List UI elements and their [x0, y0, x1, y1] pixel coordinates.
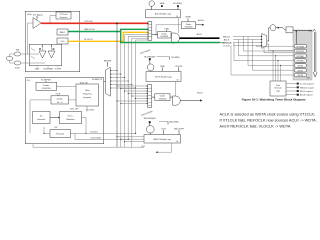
register WDTTMSEL — [294, 44, 306, 48]
wire ACLK request — [286, 94, 313, 97]
svg-text:MCLK request: MCLK request — [300, 90, 313, 93]
svg-text:Frequency: Frequency — [83, 93, 92, 96]
wire integrator to DCO — [86, 106, 88, 112]
wire SELREF inputs — [110, 70, 136, 89]
svg-text:And if REFOCLK fails, VLOCLK -: And if REFOCLK fails, VLOCLK -> WDTA — [220, 125, 291, 129]
svg-text:MCLKREQ: MCLKREQ — [171, 57, 180, 59]
wire drops to pulse generator — [272, 50, 281, 81]
svg-text:UCS: UCS — [27, 14, 32, 16]
box ACLK Enable Logic — [146, 10, 181, 18]
wire XT1 input riser — [27, 23, 29, 54]
mux SELA — [147, 22, 151, 41]
wire WDT mux output — [267, 28, 270, 41]
svg-text:MCLK Enable Logic: MCLK Enable Logic — [155, 76, 172, 78]
label SELREF — [104, 60, 112, 66]
svg-text:REFO: REFO — [60, 32, 66, 34]
wire SELM inputs — [116, 85, 147, 104]
box FLL (bottom-left) — [25, 78, 104, 144]
svg-text:SELA: SELA — [160, 2, 165, 5]
box SMCLK Enable Logic — [144, 135, 181, 143]
gate ACLK enable AND — [171, 33, 180, 43]
wire DCOCLK — [71, 131, 137, 134]
mux SELM — [148, 85, 152, 108]
op-amp XT1 oscillator buffer — [33, 15, 43, 29]
wire DCO output drop — [82, 118, 87, 134]
wire mesh rail to register taps — [231, 36, 294, 75]
svg-text:ACLKREQ: ACLKREQ — [173, 2, 182, 5]
wire ACLK (bold black) — [180, 33, 220, 39]
box Divider N+1 — [51, 96, 69, 104]
wire amp input — [28, 22, 34, 24]
svg-text:XT1 Fault: XT1 Fault — [60, 13, 68, 16]
box Pulse Generator — [270, 81, 286, 96]
wire ACLK rail green (REFOCLK sourced) — [121, 29, 221, 42]
svg-text:CB: CB — [177, 79, 179, 81]
svg-text:XT1OFF: XT1OFF — [55, 69, 61, 71]
gate MCLK enable AND — [170, 96, 180, 105]
label MCLKREQ — [157, 57, 181, 60]
wire DC gen to DCO — [50, 117, 60, 119]
svg-text:DCO, MOD: DCO, MOD — [86, 109, 95, 111]
wire MCLK enable drop — [175, 81, 177, 96]
svg-text:VLO: VLO — [60, 41, 64, 43]
box MCLK Enable Logic — [146, 72, 181, 82]
svg-text:DCOCLKDIV: DCOCLKDIV — [91, 138, 102, 140]
box WDT_A register block (gray) — [293, 30, 312, 80]
wire SELA output — [152, 34, 158, 36]
label DIVPA — [185, 16, 191, 22]
wire SMCLK request — [286, 86, 315, 89]
wire ACLK enable drop — [178, 18, 180, 33]
svg-text:REFOCLK: REFOCLK — [221, 42, 232, 44]
wire DIVPA riser — [155, 25, 181, 35]
wire vertical bus bundle — [117, 23, 136, 147]
svg-text:Prescaler: Prescaler — [56, 132, 64, 135]
svg-text:FLLN: FLLN — [56, 94, 61, 96]
wire VLOCLK (yellow) — [68, 32, 148, 41]
label CPUOFF — [175, 66, 183, 71]
svg-text:WDTSSEL0: WDTSSEL0 — [297, 61, 305, 63]
svg-text:Pulse: Pulse — [276, 85, 280, 87]
wire SELM output — [152, 96, 155, 98]
wire fault-detect tap — [49, 16, 56, 24]
bus MDB — [309, 29, 317, 77]
svg-text:WDTIS1: WDTIS1 — [298, 70, 304, 72]
box DCO + Modulator — [60, 112, 82, 124]
box Divider DIVPA — [181, 22, 195, 29]
wire ACLK/n output — [196, 19, 205, 26]
box WDT clock input cell — [286, 27, 293, 33]
svg-text:ACLK: ACLK — [197, 33, 203, 36]
svg-text:Generator: Generator — [274, 87, 282, 90]
svg-text:SMCLK: SMCLK — [223, 36, 231, 38]
svg-text:SMCLKREQEN: SMCLKREQEN — [144, 118, 157, 120]
wire N divider links — [30, 100, 76, 133]
register WDTCNTCL — [294, 49, 306, 53]
box 10-bit Frequency Integrator — [76, 84, 99, 106]
wire DCOCLKDIV — [75, 133, 129, 140]
svg-text:Figure 16-1. Watchdog Timer Bl: Figure 16-1. Watchdog Timer Block Diagra… — [242, 98, 306, 102]
svg-text:MCLKREQEN: MCLKREQEN — [144, 56, 155, 58]
label ACLKREQ — [173, 2, 182, 10]
svg-text:VLOCLK: VLOCLK — [84, 39, 93, 41]
svg-text:WDTIS0: WDTIS0 — [298, 75, 304, 77]
wire FLL bottom feedback — [33, 144, 144, 147]
svg-text:Divider: Divider — [162, 32, 168, 35]
wire XIN/XOUT into box — [25, 53, 29, 55]
register WDTSSEL0 — [294, 59, 306, 63]
svg-text:ACLK/n: ACLK/n — [198, 19, 204, 22]
svg-text:ACLK: ACLK — [224, 38, 230, 41]
svg-text:10-bit: 10-bit — [85, 89, 90, 92]
svg-text:ACLK Enable Logic: ACLK Enable Logic — [155, 13, 171, 16]
mux SELREF — [106, 67, 111, 96]
svg-text:WDTTMSEL: WDTTMSEL — [296, 46, 304, 48]
svg-text:MCLK: MCLK — [197, 92, 203, 94]
register WDTIS2 — [294, 64, 306, 68]
svg-text:Divider: Divider — [186, 23, 192, 26]
label DIVS — [161, 128, 166, 134]
label SMCLKREQEN — [144, 118, 157, 125]
svg-text:XOUT: XOUT — [15, 68, 21, 70]
svg-text:WDTCNTCL: WDTCNTCL — [296, 51, 304, 53]
box XT1 oscillator inner circuit — [29, 44, 62, 66]
svg-text:Divider: Divider — [57, 97, 63, 100]
svg-text:XT1 Bypass: XT1 Bypass — [33, 15, 43, 17]
label SELA — [160, 2, 165, 7]
wire MCLK output arrow — [180, 92, 203, 101]
label DIVA — [165, 28, 170, 32]
svg-text:SMCLK request: SMCLK request — [300, 86, 315, 89]
wire SMCLK inputs — [116, 136, 144, 142]
svg-text:Detection: Detection — [60, 16, 68, 19]
svg-text:If XT1CLK fails, REFOCLK now s: If XT1CLK fails, REFOCLK now sources ACL… — [220, 119, 317, 123]
svg-text:/1/2/4/8/16/32: /1/2/4/8/16/32 — [185, 26, 193, 28]
label XCAP / XT1BYPASS / XT1OFF — [35, 66, 62, 70]
wire divider to integrator — [57, 85, 77, 87]
svg-text:/1/2/4/8/16/32: /1/2/4/8/16/32 — [160, 36, 168, 38]
svg-text:Divider: Divider — [43, 84, 49, 87]
svg-text:SMCLK Enable Logic: SMCLK Enable Logic — [153, 139, 171, 141]
svg-text:XT1CLK: XT1CLK — [84, 21, 93, 23]
svg-text:XT1BYPASS: XT1BYPASS — [43, 68, 54, 71]
wire mux aux taps — [264, 44, 293, 53]
svg-text:X_CLK request: X_CLK request — [300, 83, 314, 86]
label SMCLKOFF — [174, 128, 185, 134]
svg-text:/1/2/4/8/12/16: /1/2/4/8/12/16 — [42, 88, 51, 90]
svg-text:SMCLKOFF: SMCLKOFF — [174, 128, 185, 130]
label rail X_CLK — [223, 45, 261, 47]
svg-text:CB: CB — [176, 16, 178, 18]
wire REFOCLK (green) — [68, 29, 148, 31]
svg-text:ACLK is selected as WDTA clock: ACLK is selected as WDTA clock source us… — [220, 113, 316, 117]
svg-text:SMCLKREQ: SMCLKREQ — [169, 121, 179, 123]
register WDTIS0 — [294, 73, 306, 77]
box VLO — [57, 38, 68, 44]
box REFO — [57, 29, 68, 35]
box Divider DIVM — [155, 94, 170, 101]
crystal X1 — [6, 54, 14, 63]
label DIVM — [160, 66, 165, 71]
label SMCLKREQ — [159, 121, 179, 124]
svg-text:DIVPA: DIVPA — [185, 16, 191, 19]
wire X_CLK request — [286, 83, 314, 86]
wire prescaler input — [43, 127, 50, 134]
gate ACLK request OR — [149, 1, 154, 10]
node XOUT pin — [14, 61, 25, 70]
svg-text:(N + 1): (N + 1) — [57, 102, 63, 104]
svg-text:Modulator: Modulator — [67, 118, 75, 121]
label FLLREFDIV — [41, 79, 51, 82]
svg-text:ACLK request: ACLK request — [300, 94, 313, 97]
wire FLLREFCLK — [92, 79, 106, 82]
gate WDT clock AND — [270, 25, 286, 31]
svg-text:REFOCLK: REFOCLK — [84, 29, 95, 31]
svg-text:FLLREFDIV: FLLREFDIV — [41, 79, 51, 81]
svg-text:CB: CB — [176, 141, 178, 143]
svg-text:CPUOFF: CPUOFF — [175, 66, 183, 68]
register WDTSSEL1 — [294, 54, 306, 58]
box Divider FLLREFDIV — [36, 82, 57, 90]
svg-text:Integrator: Integrator — [83, 96, 91, 99]
label rail SMCLK — [223, 36, 261, 38]
box XT1 fault detection — [56, 12, 71, 19]
svg-text:WDTSSEL1: WDTSSEL1 — [297, 56, 305, 58]
wire MCLK request — [286, 90, 313, 93]
svg-text:FLLREFCLK: FLLREFCLK — [92, 79, 103, 81]
mux WDT clock select — [261, 34, 267, 49]
gate SMCLK request OR — [146, 126, 154, 135]
box UCS (Unified Clock System, top-left) — [25, 11, 80, 72]
wire PUC tap — [142, 143, 172, 153]
label rail ACLK — [224, 38, 261, 41]
box Prescaler — [50, 130, 71, 138]
svg-text:Generator: Generator — [37, 118, 45, 121]
wire SELA gray inputs — [125, 34, 148, 36]
svg-text:WDTIS2: WDTIS2 — [298, 66, 304, 68]
box DC Generator — [33, 112, 51, 124]
svg-text:DCOCLK: DCOCLK — [90, 131, 98, 133]
node XIN pin — [14, 50, 25, 56]
label MCLKREQEN — [144, 56, 155, 64]
svg-text:Logic: Logic — [276, 90, 280, 92]
svg-text:X_CLK: X_CLK — [223, 45, 230, 47]
svg-text:Divider: Divider — [160, 95, 166, 98]
gate MCLK request OR — [147, 64, 154, 72]
svg-text:SELREF: SELREF — [104, 60, 112, 62]
label FLLN — [56, 94, 61, 96]
svg-text:/1/2/4/8/16/32: /1/2/4/8/16/32 — [158, 98, 166, 100]
svg-text:SCG1, OFF: SCG1, OFF — [70, 108, 78, 110]
wire XT1CLK (red) — [41, 21, 148, 24]
box Divider DIVA — [158, 32, 172, 39]
label rail REFOCLK — [221, 42, 261, 44]
register WDTIS1 — [294, 68, 306, 72]
svg-text:DCO +: DCO + — [68, 116, 74, 118]
